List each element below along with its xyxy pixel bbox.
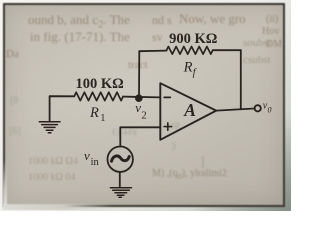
wire R1 to inverting input — [123, 96, 160, 99]
tilde inside source — [112, 156, 130, 161]
svg-text:100 KΩ: 100 KΩ — [75, 76, 123, 92]
output terminal circle — [255, 105, 261, 111]
wire feedback top right — [213, 49, 241, 51]
svg-text:900 KΩ: 900 KΩ — [169, 31, 217, 47]
wire feedback right vertical — [240, 50, 242, 109]
svg-text:A: A — [183, 100, 196, 120]
minus sign inverting input — [164, 96, 170, 98]
faint bleedthrough text rows — [28, 12, 130, 31]
op-amp A triangle — [160, 83, 216, 140]
plus sign noninverting input — [164, 123, 171, 130]
svg-text:2: 2 — [141, 110, 146, 121]
resistor Rf zigzag 900K — [167, 47, 213, 55]
svg-text:v: v — [84, 148, 90, 163]
wire plus input to source — [120, 127, 160, 146]
svg-text:v: v — [135, 100, 141, 115]
wire feedback left vertical — [138, 51, 140, 98]
svg-text:1: 1 — [100, 113, 105, 124]
wire source to ground — [119, 172, 121, 187]
node v2 junction dot — [135, 94, 143, 102]
svg-text:R: R — [89, 105, 99, 121]
svg-text:0: 0 — [268, 106, 272, 115]
wire feedback top left — [139, 50, 166, 53]
svg-text:R: R — [183, 59, 193, 75]
ground (left) — [39, 122, 60, 133]
wire output — [216, 109, 254, 111]
source vin circle — [108, 147, 133, 172]
resistor R1 zigzag — [74, 92, 123, 100]
svg-text:f: f — [193, 68, 198, 79]
wire left horizontal from ground to R1 — [50, 96, 75, 121]
ground (bottom) — [110, 188, 131, 198]
svg-text:in: in — [91, 157, 100, 168]
